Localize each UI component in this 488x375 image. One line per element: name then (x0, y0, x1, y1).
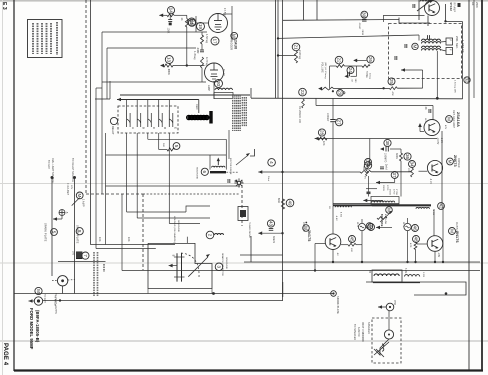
svg-text:1K: 1K (180, 18, 183, 21)
svg-text:21: 21 (293, 44, 298, 50)
svg-text:M: M (449, 229, 454, 233)
svg-text:47Ω: 47Ω (409, 243, 411, 248)
svg-text:24: 24 (348, 68, 353, 74)
svg-text:SPARK PLATE: SPARK PLATE (336, 296, 339, 314)
svg-text:5: 5 (174, 145, 179, 148)
svg-text:47K: 47K (391, 92, 393, 97)
svg-text:11V: 11V (424, 118, 426, 122)
svg-text:2SI6: 2SI6 (475, 2, 479, 8)
svg-text:300K: 300K (395, 153, 398, 159)
svg-text:30: 30 (362, 12, 367, 18)
svg-text:3.2Ω VC: 3.2Ω VC (357, 327, 360, 337)
svg-text:M: M (77, 193, 82, 197)
svg-text:38: 38 (385, 140, 390, 146)
svg-text:E 3: E 3 (1, 2, 7, 10)
svg-text:M: M (447, 160, 452, 164)
svg-text:M: M (412, 44, 417, 48)
svg-text:49: 49 (287, 200, 292, 206)
svg-text:-14V: -14V (437, 252, 439, 258)
svg-text:34: 34 (409, 161, 414, 167)
svg-text:5: 5 (51, 231, 56, 234)
svg-text:AF: AF (471, 2, 475, 6)
svg-text:7: 7 (83, 254, 88, 257)
svg-text:2700: 2700 (386, 185, 388, 191)
svg-text:36: 36 (405, 154, 410, 160)
svg-text:2.2meg: 2.2meg (298, 50, 301, 59)
svg-text:PART # 98B0808: PART # 98B0808 (361, 322, 364, 342)
svg-text:TO 14V: TO 14V (47, 160, 50, 169)
svg-text:580: 580 (162, 143, 164, 148)
svg-text:32V: 32V (70, 185, 72, 190)
svg-text:20: 20 (216, 81, 221, 87)
svg-text:FORD MODEL 95MF: FORD MODEL 95MF (29, 308, 34, 350)
svg-text:12K: 12K (322, 141, 325, 146)
svg-text:13: 13 (167, 57, 172, 63)
svg-text:DET, AGC AMP: DET, AGC AMP (452, 110, 455, 128)
svg-text:10K: 10K (98, 237, 101, 242)
svg-text:1.5meg 10K: 1.5meg 10K (454, 80, 456, 93)
svg-text:HOLDING (ON SEARCH): HOLDING (ON SEARCH) (173, 216, 176, 243)
svg-text:300: 300 (72, 251, 74, 256)
svg-text:SPEAKER: SPEAKER (367, 322, 370, 334)
svg-text:42V: 42V (444, 125, 446, 130)
svg-text:180: 180 (350, 248, 352, 253)
svg-text:DIAL LAMP SOURCE: DIAL LAMP SOURCE (51, 158, 54, 183)
svg-text:11.7V: 11.7V (222, 69, 225, 76)
svg-text:3: 3 (216, 266, 221, 269)
svg-text:-8V: -8V (336, 252, 338, 256)
svg-text:500: 500 (362, 166, 364, 171)
svg-text:TO SPEAKER: TO SPEAKER (353, 324, 356, 340)
svg-text:400Ω 4W: 400Ω 4W (384, 214, 386, 225)
svg-text:280Ω: 280Ω (382, 185, 384, 191)
svg-text:(B9FA-18805-B): (B9FA-18805-B) (35, 310, 40, 343)
svg-text:2N673: 2N673 (453, 155, 457, 167)
svg-text:3.2Ω: 3.2Ω (422, 272, 424, 277)
svg-text:2mfd: 2mfd (385, 164, 387, 170)
svg-text:4.7meg: 4.7meg (193, 51, 196, 60)
svg-text:25: 25 (389, 79, 394, 85)
svg-text:OUTPUT: OUTPUT (302, 222, 304, 233)
svg-text:2SA16A: 2SA16A (456, 112, 460, 127)
svg-text:SEARCH SELECTOR: SEARCH SELECTOR (221, 253, 224, 276)
svg-text:5%: 5% (364, 176, 366, 179)
svg-text:2: 2 (207, 234, 212, 237)
svg-text:2meg: 2meg (369, 73, 371, 80)
svg-text:-2.1V: -2.1V (429, 178, 431, 184)
svg-text:10K: 10K (127, 237, 130, 242)
svg-text:4: 4 (269, 161, 274, 164)
svg-text:MOTOR DRIVE: MOTOR DRIVE (229, 158, 231, 175)
svg-text:TONE: TONE (365, 71, 367, 78)
svg-text:DRIVER: DRIVER (457, 158, 460, 168)
svg-text:REO: REO (195, 104, 198, 110)
svg-text:28: 28 (319, 130, 324, 136)
svg-text:280Ω: 280Ω (361, 30, 363, 36)
svg-text:RF AMP: RF AMP (453, 3, 456, 13)
svg-text:M: M (446, 117, 451, 121)
svg-text:45: 45 (349, 236, 354, 242)
svg-text:1000mf: 1000mf (326, 113, 328, 122)
svg-text:PAGE 4: PAGE 4 (2, 343, 8, 366)
svg-text:A: A (131, 127, 135, 129)
svg-text:F 3.2 AMP: F 3.2 AMP (66, 183, 69, 195)
svg-text:2700: 2700 (393, 189, 395, 195)
svg-text:DC 200mV 10K: DC 200mV 10K (298, 106, 300, 124)
svg-text:TO PILOT LIGHTS: TO PILOT LIGHTS (54, 293, 56, 314)
svg-text:30mfd: 30mfd (272, 236, 275, 244)
svg-text:TUNER DRIVE: TUNER DRIVE (248, 222, 250, 238)
svg-text:8: 8 (77, 230, 82, 233)
svg-text:380: 380 (354, 79, 356, 84)
svg-text:4.7meg: 4.7meg (205, 57, 208, 66)
svg-text:41: 41 (365, 163, 370, 169)
svg-text:AMP: AMP (207, 85, 210, 91)
svg-text:2TO8: 2TO8 (395, 189, 397, 196)
svg-text:2N175: 2N175 (307, 230, 311, 241)
svg-text:46: 46 (412, 225, 417, 231)
svg-text:22: 22 (336, 58, 341, 64)
svg-text:12AU8: 12AU8 (234, 38, 238, 49)
svg-text:29: 29 (337, 90, 342, 96)
svg-text:50mf: 50mf (267, 176, 269, 182)
svg-text:1 AMP: 1 AMP (81, 199, 84, 207)
svg-text:9T102: 9T102 (449, 3, 453, 12)
svg-text:SOLENOID: SOLENOID (177, 220, 179, 232)
svg-text:SOLENOID: SOLENOID (225, 257, 227, 269)
svg-text:17: 17 (212, 38, 217, 44)
svg-text:3.2Ω: 3.2Ω (404, 268, 406, 273)
svg-text:SPARK PLATE: SPARK PLATE (44, 223, 48, 242)
svg-text:BALANCE: BALANCE (380, 214, 383, 227)
svg-text:M: M (36, 289, 41, 293)
svg-text:SOLENOID: SOLENOID (196, 167, 198, 179)
svg-text:E: E (174, 127, 178, 129)
svg-text:14: 14 (168, 8, 173, 14)
svg-text:80Ω: 80Ω (277, 198, 280, 203)
svg-text:B: B (171, 255, 175, 257)
svg-text:2N176: 2N176 (455, 231, 459, 243)
svg-text:PHO: PHO (393, 300, 395, 305)
svg-text:37: 37 (392, 172, 397, 178)
svg-text:(1M.) & 1.5meg: (1M.) & 1.5meg (324, 62, 326, 79)
svg-text:4.5Ω: 4.5Ω (340, 212, 342, 217)
svg-text:2ND. SEC.: 2ND. SEC. (455, 36, 458, 49)
svg-text:100MFD: 100MFD (384, 153, 386, 163)
svg-text:47: 47 (368, 224, 373, 230)
svg-text:PL 4: PL 4 (356, 222, 358, 228)
svg-text:6: 6 (202, 171, 207, 174)
svg-text:VOLUME: VOLUME (321, 62, 324, 73)
svg-text:RELAY: RELAY (111, 126, 114, 135)
svg-text:43: 43 (268, 221, 273, 227)
svg-text:23: 23 (300, 90, 305, 96)
svg-text:-9.4V: -9.4V (335, 215, 337, 221)
svg-text:26: 26 (368, 57, 373, 63)
svg-text:B: B (141, 127, 145, 129)
svg-text:TO ANT.: TO ANT. (43, 294, 46, 304)
svg-text:PL 5: PL 5 (402, 222, 404, 228)
svg-text:27: 27 (337, 120, 342, 126)
svg-text:100K: 100K (167, 28, 169, 34)
svg-text:.04: .04 (424, 106, 426, 110)
svg-text:250Ω: 250Ω (389, 189, 391, 195)
svg-text:.00047: .00047 (358, 22, 360, 30)
svg-text:32: 32 (464, 77, 469, 83)
svg-text:680K: 680K (167, 69, 170, 75)
svg-text:48: 48 (413, 236, 418, 242)
svg-text:19: 19 (198, 24, 203, 30)
svg-text:18: 18 (189, 19, 194, 25)
svg-text:1.5meg: 1.5meg (205, 34, 208, 43)
